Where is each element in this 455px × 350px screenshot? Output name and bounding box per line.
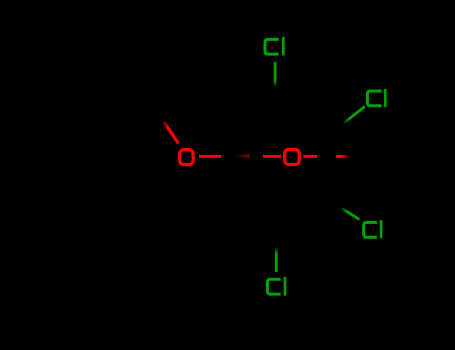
atom O1 (ring oxygen, drawn as rounded ring): [285, 149, 300, 164]
atom O (methoxy oxygen, drawn as rounded ring): [180, 150, 193, 165]
atom Cl bottom: letter l: [284, 277, 287, 296]
bond C2-O1 dash (fading from carbon, black to red): [237, 155, 250, 158]
atom Cl top: letter C: [265, 39, 279, 54]
bond O-C2 (red half): [199, 155, 221, 158]
atom Cl bottom: letter C: [267, 279, 280, 294]
bond Cl-CH2 upper right (green half, fades down-left): [343, 107, 365, 124]
bond Cl-CH2 top (green half, fades downward): [274, 62, 277, 88]
atom Cl lower right: letter l: [380, 220, 383, 238]
bond O1-C6 dash (red fading to black toward carbon): [336, 155, 350, 158]
bond C2-O1 dash (red, next to ring oxygen): [263, 155, 281, 158]
bond CH2-Cl lower right (fades up-left toward carbon): [341, 208, 360, 220]
bond CH2-Cl bottom (green half, fades upward): [275, 247, 278, 272]
atom Cl upper right: letter l: [384, 89, 387, 107]
atom Cl lower right: letter C: [364, 222, 377, 237]
bond O1-C6 dash (red): [304, 155, 318, 158]
bond CH3-O (red half, fades to black toward methyl carbon): [164, 122, 179, 144]
atom Cl upper right: letter C: [367, 91, 381, 106]
atom Cl top: letter l: [282, 37, 285, 56]
